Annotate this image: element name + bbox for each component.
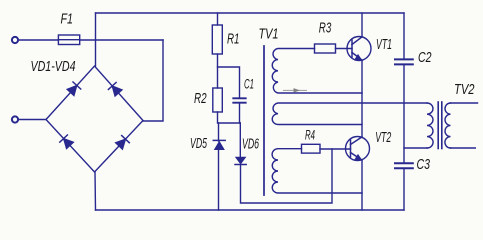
- transformer TV1 core: [263, 46, 265, 195]
- transistor VT1: [347, 37, 371, 61]
- wire VT1 collector to top rail: [361, 13, 363, 37]
- wire C2 bottom down through to C3: [403, 64, 405, 163]
- wire C3 bottom to bottom rail: [403, 168, 405, 210]
- wire fuse to right drop: [80, 39, 163, 41]
- svg-text:VD6: VD6: [242, 137, 260, 153]
- wire R3 to VT1 base: [336, 48, 353, 50]
- wire TV2 primary bottom to capacitor midpoint: [404, 147, 427, 149]
- svg-text:R2: R2: [194, 90, 207, 107]
- svg-text:C1: C1: [244, 77, 254, 92]
- transformer TV2 core: [438, 102, 442, 149]
- svg-text:C3: C3: [417, 156, 431, 173]
- wire right drop to bridge right vertex: [143, 40, 163, 121]
- TV1 winding W2: [272, 103, 427, 125]
- resistor R3: [315, 44, 336, 53]
- wire C1 bottom to junction: [239, 103, 241, 123]
- svg-text:TV2: TV2: [454, 81, 475, 98]
- capacitor C1: [233, 98, 245, 102]
- capacitor C2: [395, 59, 413, 64]
- diode VD2 (upper-right arm): [108, 83, 121, 96]
- capacitor C3: [395, 163, 413, 168]
- terminal input 2: [12, 116, 18, 122]
- wire midpoint rail (VT1 emitter to VT2 collector): [361, 60, 363, 137]
- svg-text:TV1: TV1: [259, 26, 279, 43]
- diode VD3 (lower-left arm): [60, 135, 73, 148]
- wire left vertical (top rail to bridge top vertex): [95, 13, 97, 66]
- wire R1 to R2: [217, 54, 219, 88]
- svg-text:F1: F1: [61, 11, 74, 28]
- bridge rectifier VD1-VD4 diamond: [46, 66, 143, 172]
- diode VD1 (upper-left arm): [67, 82, 80, 95]
- wire VD6 bottom to VT2 base node: [241, 149, 333, 203]
- resistor R4: [302, 144, 321, 153]
- svg-text:VT1: VT1: [376, 36, 392, 53]
- wire VT2 emitter to bottom rail: [361, 160, 363, 210]
- diode VD6: [235, 157, 246, 164]
- svg-text:VD5: VD5: [190, 136, 208, 152]
- svg-text:VD1-VD4: VD1-VD4: [31, 59, 76, 75]
- resistor R2: [213, 88, 223, 112]
- fuse F1: [58, 35, 79, 45]
- transistor VT2: [346, 137, 370, 161]
- wire junction to C1 top: [218, 67, 240, 98]
- wire TV2 secondary bottom lead: [451, 147, 476, 149]
- svg-text:R3: R3: [319, 20, 332, 37]
- diode VD4 (lower-right arm): [116, 136, 130, 149]
- wire bottom rail: [96, 209, 405, 211]
- gray arrow on W1 bottom wire: [284, 88, 307, 93]
- svg-text:C2: C2: [418, 49, 432, 66]
- wire R2 bottom / node J2: [218, 112, 241, 123]
- wire top rail: [96, 12, 405, 14]
- diode VD5: [213, 140, 225, 149]
- TV1 winding W3: [272, 149, 362, 193]
- svg-text:R1: R1: [227, 31, 240, 48]
- svg-text:VT2: VT2: [375, 129, 391, 146]
- wire R4 to VT2 base: [320, 148, 351, 150]
- transformer TV2 right winding: [445, 103, 451, 148]
- wire R1 branch from top rail: [217, 13, 219, 25]
- wire C2 branch from top rail: [403, 13, 405, 59]
- resistor R1: [212, 25, 222, 54]
- svg-text:R4: R4: [305, 127, 315, 142]
- TV1 winding W1: [272, 49, 362, 94]
- terminal input 1: [12, 37, 18, 43]
- wire TV2 secondary top lead: [451, 102, 478, 104]
- wire VD5 to bottom rail: [218, 123, 220, 210]
- wire bridge bottom vertex to bottom rail: [94, 172, 97, 210]
- transformer TV2 left winding: [427, 103, 433, 148]
- wire VD6 branch: [239, 123, 241, 157]
- wire terminal2 to bridge left vertex: [19, 119, 46, 121]
- wire terminal1 to fuse: [19, 39, 59, 41]
